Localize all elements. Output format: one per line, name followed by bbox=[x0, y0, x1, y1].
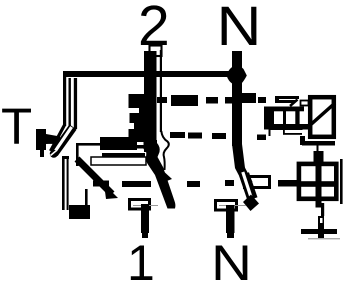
svg-text:N: N bbox=[211, 235, 252, 291]
svg-text:T: T bbox=[1, 98, 32, 155]
svg-text:2: 2 bbox=[138, 0, 170, 58]
svg-text:1: 1 bbox=[127, 235, 155, 291]
svg-text:N: N bbox=[217, 0, 262, 57]
